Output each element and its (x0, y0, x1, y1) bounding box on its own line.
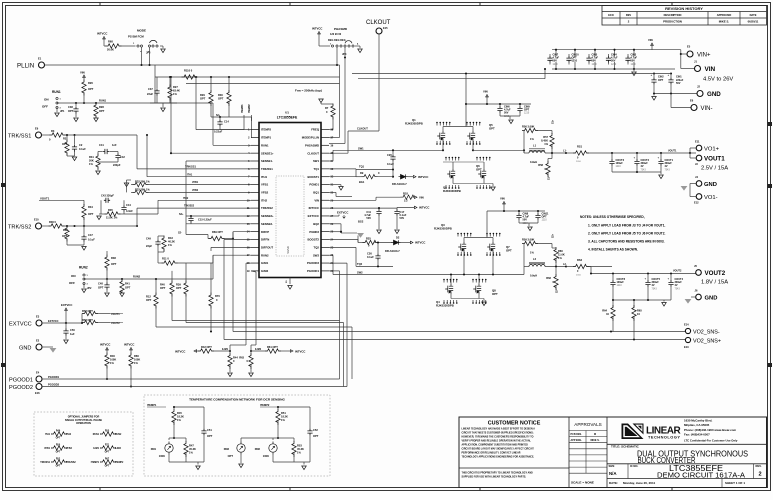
svg-text:ECO: ECO (608, 13, 614, 17)
wire EXTVCC net (42, 322, 82, 324)
svg-text:3.3nF: 3.3nF (126, 209, 133, 213)
svg-text:R45: R45 (177, 411, 182, 415)
svg-text:TQ2: TQ2 (314, 245, 320, 249)
svg-text:E4: E4 (36, 371, 40, 375)
resistor R27 (168, 85, 172, 101)
svg-text:SW1: SW1 (358, 147, 364, 151)
svg-text:C44: C44 (126, 203, 131, 207)
IC pin 30 BQ1 (321, 191, 329, 193)
terminal J5 VOUT2 (696, 270, 702, 276)
IC pin 34 SW1 (321, 160, 329, 162)
svg-text:1210: 1210 (572, 60, 578, 63)
svg-text:R41: R41 (125, 282, 130, 286)
svg-text:R67: R67 (105, 459, 110, 461)
svg-text:S1-: S1- (549, 176, 551, 180)
svg-text:OPERATION: OPERATION (76, 422, 91, 425)
svg-text:INTVCC: INTVCC (418, 175, 428, 179)
svg-text:PHASMD: PHASMD (334, 27, 348, 31)
svg-text:RUN2: RUN2 (115, 434, 122, 436)
svg-text:EXTVCC: EXTVCC (9, 321, 32, 327)
svg-text:R60: R60 (558, 249, 563, 253)
resistor R47 (174, 437, 186, 439)
svg-text:4V: 4V (665, 165, 668, 168)
svg-text:50V: 50V (523, 219, 528, 222)
wire temp gnd bus 1 (169, 461, 204, 463)
ground C38 (74, 118, 79, 122)
svg-text:INTVCC: INTVCC (295, 349, 305, 353)
svg-text:R51: R51 (281, 411, 286, 415)
svg-text:PGOOD1: PGOOD1 (307, 269, 319, 273)
svg-text:OPT: OPT (492, 292, 498, 296)
svg-text:R31: R31 (89, 155, 94, 159)
IC pin 35 CLKOUT (321, 152, 329, 154)
svg-text:20.0K: 20.0K (107, 48, 114, 52)
capacitor C14 (217, 120, 222, 126)
wire RUN1 net (57, 102, 213, 104)
temperature compensation box (144, 395, 330, 476)
terminal E6 VIN- (670, 94, 672, 108)
svg-text:BOOST1: BOOST1 (307, 175, 319, 179)
IC pin 25 PGND2 (321, 231, 329, 233)
svg-text:R62: R62 (546, 276, 551, 280)
svg-text:VFB1: VFB1 (261, 183, 269, 187)
svg-text:R44: R44 (233, 356, 238, 360)
svg-text:C41: C41 (99, 143, 104, 147)
wire TRK/SS2 bus (137, 207, 251, 209)
IC pin 7 ITH1 (251, 176, 259, 178)
svg-text:18.2K: 18.2K (177, 415, 184, 419)
svg-text:S2-: S2- (557, 289, 559, 293)
svg-text:OPT: OPT (111, 262, 117, 266)
svg-text:100K: 100K (134, 358, 140, 362)
terminal E12 VO1- (696, 194, 702, 200)
svg-text:R69 OPT: R69 OPT (212, 230, 223, 234)
svg-text:06/20/11: 06/20/11 (748, 20, 759, 24)
svg-text:IC NO.: IC NO. (630, 464, 638, 468)
wire MODE to PLLIN bus (141, 47, 143, 65)
svg-text:REVISION HISTORY: REVISION HISTORY (665, 6, 703, 11)
svg-text:CLKOUT: CLKOUT (307, 151, 319, 155)
wire VIN ch2 drop (503, 206, 505, 212)
resistor R64 (612, 300, 614, 308)
svg-text:OPT: OPT (56, 438, 61, 440)
svg-text:VIN: VIN (483, 90, 488, 94)
svg-text:S1+: S1+ (553, 119, 555, 124)
svg-text:RS2: RS2 (577, 258, 583, 262)
svg-text:R28: R28 (99, 105, 104, 109)
svg-text:BG2: BG2 (358, 220, 364, 224)
svg-text:C2: C2 (79, 143, 83, 147)
svg-text:R39: R39 (176, 283, 181, 287)
label INTVCC D1 (413, 175, 416, 178)
svg-text:DEMO CIRCUIT 1617A-A: DEMO CIRCUIT 1617A-A (657, 470, 745, 479)
svg-text:OPT: OPT (99, 109, 105, 113)
ground CIN8 CIN11 (519, 222, 538, 224)
capacitor C11 (378, 208, 380, 210)
svg-text:RUN2: RUN2 (261, 253, 269, 257)
transistor Q4 pin array (443, 280, 445, 283)
ground temp 2 (303, 462, 305, 465)
frame tick right 1 (768, 122, 773, 126)
IC pin 26 BQ2 (321, 223, 329, 225)
svg-text:R52: R52 (56, 459, 61, 461)
svg-text:SUPPLIED FOR USE WITH LINEAR T: SUPPLIED FOR USE WITH LINEAR TECHNOLOGY … (462, 476, 527, 479)
svg-text:REV: REV (626, 13, 632, 17)
wire PGOOD1 net (42, 378, 340, 380)
svg-text:R64: R64 (602, 309, 607, 313)
svg-text:VOUT1: VOUT1 (111, 312, 120, 316)
svg-text:1.8V / 15A: 1.8V / 15A (701, 280, 728, 286)
svg-text:LTC Confidential-For Customer: LTC Confidential-For Customer Use Only (684, 439, 738, 443)
svg-text:R46: R46 (110, 354, 115, 358)
svg-text:E3: E3 (36, 315, 40, 319)
svg-text:VIN: VIN (500, 197, 505, 201)
svg-text:OPT: OPT (228, 454, 234, 458)
svg-text:CLKOUT: CLKOUT (357, 127, 368, 131)
svg-text:Milpitas, CA 95035: Milpitas, CA 95035 (684, 423, 710, 427)
svg-text:GND: GND (705, 296, 718, 302)
svg-text:ITH2: ITH2 (66, 434, 72, 436)
svg-text:RUN1: RUN1 (93, 434, 100, 436)
svg-text:N/A: N/A (609, 471, 617, 476)
svg-text:TQ1: TQ1 (359, 165, 365, 169)
capacitor CIN7 (555, 50, 557, 57)
svg-text:8.45K: 8.45K (541, 139, 548, 143)
wire DIFFN (224, 239, 251, 241)
svg-text:1210: 1210 (617, 285, 623, 287)
wire SENSE1- return (186, 83, 340, 85)
IC pin 38 FREQ (321, 129, 329, 131)
svg-text:BG1: BG1 (359, 180, 365, 184)
svg-text:R29: R29 (200, 93, 205, 97)
svg-text:2. ONLY APPLY LOAD FROM J5 TO: 2. ONLY APPLY LOAD FROM J5 TO J6 FOR VOU… (588, 232, 666, 236)
wire VOUT2 rail (591, 273, 696, 275)
svg-text:Monday, June 20, 2011: Monday, June 20, 2011 (623, 481, 655, 485)
svg-text:RN1: RN1 (151, 447, 157, 451)
svg-text:CIRCUIT THAT MEETS CUSTOMER-SU: CIRCUIT THAT MEETS CUSTOMER-SUPPLIED SPE… (462, 432, 534, 435)
svg-text:E16: E16 (35, 391, 40, 395)
svg-text:VFB2: VFB2 (261, 191, 269, 195)
svg-text:MODE/PLLIN: MODE/PLLIN (302, 136, 319, 140)
svg-text:TEMPERATURE COMPENSATION NETWO: TEMPERATURE COMPENSATION NETWORK FOR DCR… (189, 398, 285, 402)
svg-text:C15 0.22uF: C15 0.22uF (198, 218, 212, 222)
svg-text:ILIM2: ILIM2 (261, 269, 269, 273)
svg-text:R12: R12 (146, 295, 151, 299)
capacitor C15 (188, 216, 193, 222)
svg-text:C43 330pF: C43 330pF (101, 194, 114, 198)
svg-text:45.3K: 45.3K (189, 447, 196, 451)
capacitor C38 (73, 106, 78, 113)
IC pin 15 DIFFN (251, 239, 259, 241)
svg-text:E14: E14 (684, 323, 689, 327)
svg-text:SENSE2+: SENSE2+ (261, 214, 274, 218)
svg-text:C51: C51 (207, 428, 212, 432)
svg-text:R66: R66 (134, 354, 139, 358)
IC pin 39 SGND stub (289, 278, 291, 285)
wire R12 bus (156, 326, 352, 328)
svg-text:VERIFY PROPER AND RELIABLE OPE: VERIFY PROPER AND RELIABLE OPERATION IN … (462, 440, 532, 443)
IC pin 20 PGOOD1 (321, 270, 329, 272)
svg-text:VOUT2: VOUT2 (673, 270, 682, 273)
svg-text:OPT: OPT (218, 97, 224, 101)
svg-text:PS BM FCM: PS BM FCM (128, 35, 144, 39)
svg-text:E15: E15 (383, 26, 388, 30)
transistor Q3 pin array lower (457, 252, 459, 255)
ground J6 (685, 299, 692, 304)
IC pin 21 PGOOD2 (321, 262, 329, 264)
capacitor CIN6 (499, 104, 501, 107)
svg-text:ITEMP2: ITEMP2 (115, 462, 124, 464)
IC pin 24 BOOST2 (321, 239, 329, 241)
svg-text:ON: ON (71, 274, 76, 278)
wire ITH2 (158, 199, 251, 201)
svg-text:4V: 4V (675, 284, 678, 287)
transistor Q5 OPT (467, 131, 475, 141)
svg-text:TRK/SS2: TRK/SS2 (261, 206, 273, 210)
svg-text:DIFFN: DIFFN (261, 238, 269, 242)
ground R28 (94, 118, 99, 122)
svg-text:VIN+: VIN+ (697, 53, 711, 59)
svg-text:E5: E5 (687, 45, 691, 49)
svg-text:220pF: 220pF (113, 163, 121, 167)
svg-text:ON: ON (44, 98, 49, 102)
svg-text:11.0K: 11.0K (558, 253, 565, 257)
svg-text:HOWEVER, IT REMAINS THE CUSTOM: HOWEVER, IT REMAINS THE CUSTOMER'S RESPO… (462, 436, 534, 439)
svg-text:R9: R9 (360, 171, 364, 175)
svg-text:INTVCC: INTVCC (312, 27, 322, 31)
svg-text:R53: R53 (297, 444, 302, 448)
svg-text:ITEMP1: ITEMP1 (241, 104, 244, 113)
ground input bank (633, 69, 635, 71)
wire R40 bus (172, 320, 340, 322)
svg-text:R2: R2 (63, 137, 67, 141)
svg-text:GND: GND (707, 91, 721, 98)
svg-text:INTVCC: INTVCC (415, 241, 425, 245)
ground R7 (319, 99, 324, 103)
resistor R57 (550, 133, 554, 149)
wire SW2 to fets (446, 274, 524, 276)
resistor R46 (105, 353, 109, 369)
svg-text:OPT: OPT (56, 466, 61, 468)
svg-text:ITEMP2: ITEMP2 (261, 128, 272, 132)
frame tick right 3 (768, 363, 773, 367)
svg-text:TRK/SS1: TRK/SS1 (185, 165, 197, 169)
svg-text:RN3: RN3 (224, 447, 230, 451)
capacitor CIN8 (518, 211, 520, 214)
svg-text:VO2_SNS+: VO2_SNS+ (693, 338, 721, 344)
wire CLKOUT net (378, 34, 380, 131)
svg-text:S2-: S2- (178, 232, 182, 235)
svg-text:OPT: OPT (658, 79, 664, 82)
svg-text:11.8K 1%: 11.8K 1% (106, 216, 118, 220)
svg-text:APPROVED: APPROVED (717, 13, 732, 17)
svg-text:C14: C14 (224, 120, 229, 124)
resistor R45 (172, 409, 176, 425)
svg-text:E9: E9 (35, 127, 39, 131)
transistor Q2 RJK0330DPB (447, 169, 455, 179)
svg-text:R40: R40 (160, 283, 165, 287)
svg-text:RJK0330DPB: RJK0330DPB (436, 304, 454, 308)
wire PGOOD2 net (42, 386, 347, 388)
svg-text:R36 0: R36 0 (49, 220, 56, 224)
terminal E11 VO1+ (690, 147, 696, 149)
optional jumpers box (34, 412, 133, 476)
svg-text:TRK/SS2: TRK/SS2 (184, 205, 195, 208)
svg-text:1210: 1210 (542, 220, 548, 222)
wire temp gnd bus 2 (273, 461, 310, 463)
svg-text:VFB2: VFB2 (192, 189, 199, 192)
wire PLLIN branch box (154, 65, 156, 77)
svg-text:TECHNOLOGY: TECHNOLOGY (648, 435, 680, 440)
svg-text:1210: 1210 (616, 166, 622, 168)
svg-text:VOUT1: VOUT1 (668, 150, 677, 153)
IC pin 36 PHSASMD (321, 144, 329, 146)
svg-text:OPT: OPT (125, 286, 131, 290)
resistor R60 (554, 247, 558, 263)
svg-text:C52: C52 (313, 428, 318, 432)
svg-text:E12: E12 (694, 201, 699, 205)
svg-text:SW1: SW1 (313, 159, 320, 163)
svg-text:2010: 2010 (576, 161, 582, 163)
ground COUT2 bank (663, 300, 665, 302)
svg-text:0.9uH: 0.9uH (530, 160, 537, 164)
capacitor CIN11 (537, 211, 539, 214)
capacitor C2 (72, 144, 77, 151)
svg-text:ITEMP1: ITEMP1 (147, 403, 157, 407)
svg-text:VIN: VIN (419, 195, 424, 199)
svg-text:22pF: 22pF (146, 244, 152, 248)
title row (607, 443, 767, 445)
terminal E14 VO2_SNS- (685, 328, 690, 333)
ground R63 (249, 373, 254, 377)
svg-text:VOUT1: VOUT1 (704, 156, 725, 163)
capacitor C47 (81, 234, 86, 241)
ground CIN6 CIN9 (500, 115, 520, 117)
svg-text:OPT: OPT (476, 167, 482, 171)
svg-text:U1: U1 (285, 111, 289, 115)
svg-text:VFB1: VFB1 (192, 181, 199, 184)
svg-text:BQ2: BQ2 (313, 222, 319, 226)
svg-text:45.3K: 45.3K (297, 447, 304, 451)
svg-text:DATE:: DATE: (609, 481, 618, 485)
capacitor CIN10 (574, 50, 576, 57)
svg-text:ITH1: ITH1 (45, 434, 51, 436)
svg-text:C20: C20 (387, 153, 392, 157)
svg-text:R33 20K 1%: R33 20K 1% (135, 188, 150, 192)
svg-text:OPT: OPT (146, 298, 152, 302)
capacitor COUT1 (660, 153, 662, 160)
ground R41 (120, 293, 125, 297)
resistor R68 (103, 41, 105, 47)
IC pin 1 ITEMP2 (251, 129, 259, 131)
resistor R35 (105, 212, 121, 216)
ground temp 1 (197, 462, 199, 465)
svg-text:R49: R49 (56, 430, 61, 433)
svg-text:50V: 50V (504, 112, 509, 115)
svg-text:PGND1: PGND1 (309, 183, 319, 187)
svg-text:TRK/SS2: TRK/SS2 (66, 462, 76, 464)
ground R35 (97, 216, 102, 220)
terminal J4 GND (696, 181, 702, 187)
svg-text:R56 3.09K: R56 3.09K (522, 125, 535, 129)
svg-text:4V: 4V (641, 165, 644, 168)
svg-text:R50: R50 (56, 445, 61, 447)
label INTVCC pin28 (414, 206, 417, 209)
svg-text:R34: R34 (88, 205, 93, 209)
svg-text:OPT: OPT (542, 216, 548, 219)
wire input bank bottom bus (552, 68, 675, 70)
svg-text:OPT: OPT (200, 97, 206, 101)
svg-text:50V: 50V (592, 60, 597, 63)
svg-text:PGND2: PGND2 (309, 230, 319, 234)
svg-text:1uF: 1uF (70, 332, 75, 336)
wire CIN bottom to GND J2 (654, 93, 697, 95)
svg-text:RJK0305DPB: RJK0305DPB (434, 227, 452, 231)
Linear Technology logo (622, 424, 682, 440)
transistor Q8 OPT (473, 284, 481, 294)
IC pin 10 ITH2 (251, 199, 259, 201)
svg-text:DIFFP: DIFFP (261, 230, 269, 234)
svg-text:100uF: 100uF (616, 162, 624, 165)
svg-text:E6: E6 (690, 99, 694, 103)
svg-text:R70: R70 (215, 294, 220, 298)
svg-text:SW2: SW2 (313, 253, 320, 257)
frame tick top 1 (99, 3, 101, 6)
svg-text:Fsw = 250kHz (typ): Fsw = 250kHz (typ) (295, 89, 322, 93)
svg-text:R72 OPT: R72 OPT (82, 309, 93, 313)
svg-text:SGND: SGND (286, 246, 290, 254)
wire VOUT1 bus (612, 152, 696, 154)
svg-text:2.2: 2.2 (404, 199, 408, 203)
svg-text:SW2: SW2 (357, 271, 363, 275)
svg-text:40.2K: 40.2K (168, 240, 175, 244)
svg-text:7343: 7343 (652, 288, 658, 290)
ground C50 (64, 340, 69, 344)
svg-text:50V: 50V (366, 216, 371, 220)
svg-text:PCB DES.: PCB DES. (571, 433, 583, 436)
svg-text:100K: 100K (263, 454, 269, 458)
frame tick top 3 (479, 3, 481, 6)
svg-text:0.1uF: 0.1uF (79, 147, 86, 151)
IC pin 4 SENSE1+ (251, 152, 259, 154)
transistor Q2 pin array lower (445, 185, 447, 188)
svg-text:DFLS1100-7: DFLS1100-7 (392, 182, 407, 186)
svg-text:INTVCC: INTVCC (97, 32, 107, 36)
svg-text:JP1: JP1 (60, 110, 65, 113)
capacitor CIN5 (594, 50, 596, 57)
resistor R65 (633, 300, 635, 308)
svg-text:FREQ: FREQ (311, 128, 320, 132)
terminal E13 VO2_SNS+ (685, 337, 690, 342)
svg-text:ITH2: ITH2 (261, 198, 268, 202)
svg-text:TRK/SS2: TRK/SS2 (8, 224, 31, 230)
svg-text:MIKE S.: MIKE S. (719, 20, 730, 24)
svg-text:20K: 20K (89, 159, 94, 163)
capacitor C37 (154, 88, 159, 95)
capacitor C50 (63, 328, 68, 335)
svg-text:TQ1: TQ1 (314, 167, 320, 171)
svg-text:NOTES: UNLESS OTHERWISE SPECIF: NOTES: UNLESS OTHERWISE SPECIFIED, (580, 215, 645, 219)
ground C17 (395, 230, 400, 234)
svg-text:VIN: VIN (80, 71, 85, 75)
svg-text:PLLIN: PLLIN (17, 62, 34, 69)
IC pin 18 ILIM1 (251, 262, 259, 264)
wire SW1 to L1 (523, 150, 525, 153)
transistor Q4 pin array lower (443, 300, 445, 303)
svg-text:C42: C42 (120, 155, 125, 159)
svg-text:VO1-: VO1- (704, 195, 718, 201)
ground Q2 Q6 (492, 184, 494, 187)
